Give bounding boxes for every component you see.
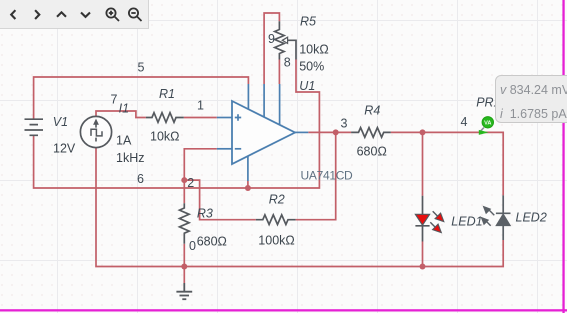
svg-text:U1: U1 <box>299 79 315 93</box>
op-amp - input stub <box>217 148 232 150</box>
svg-text:1: 1 <box>197 99 204 113</box>
toolbar pan up icon <box>57 12 66 16</box>
LED1 triangle <box>415 214 429 225</box>
wire net6 (battery - bottom rail to pot wiper) <box>34 60 320 189</box>
op-amp top pin stub (null 5) <box>279 84 281 125</box>
op-amp minus sign <box>235 148 241 150</box>
I1 arrow up <box>95 124 97 142</box>
pot R5 wiper lead <box>287 40 296 59</box>
LED2 emission arrow a <box>488 209 494 215</box>
wire op-amp V- pin to bottom rail <box>247 181 249 188</box>
junction op-amp V- on net6 <box>245 185 251 191</box>
resistor R1 zigzag <box>146 113 184 123</box>
probe PR1 arrow on wire <box>479 130 489 135</box>
wire net9 (pot top to op-amp pin) <box>264 13 279 84</box>
toolbar pan left icon <box>11 10 15 19</box>
wire R2 right to output node 3 <box>296 132 336 219</box>
probe PR1 needle <box>480 128 485 133</box>
battery V1 plates <box>25 119 44 135</box>
svg-text:1A: 1A <box>116 133 132 147</box>
ground junction on net0 <box>181 264 187 270</box>
toolbar zoom in icon <box>106 8 119 21</box>
svg-text:0: 0 <box>189 239 196 253</box>
ground symbol <box>176 283 192 299</box>
svg-text:6: 6 <box>137 172 144 186</box>
op-amp U1 triangle <box>232 101 295 164</box>
svg-text:R4: R4 <box>364 104 380 118</box>
LED2 triangle <box>496 214 510 226</box>
svg-text:12V: 12V <box>53 141 76 155</box>
toolbar <box>0 0 149 29</box>
svg-text:2: 2 <box>187 176 194 190</box>
page boundary magenta right <box>562 0 564 313</box>
resistor R4 zigzag <box>351 128 391 138</box>
svg-text:680Ω: 680Ω <box>357 145 387 159</box>
wire net5 (battery + to op-amp V+) <box>34 77 249 119</box>
svg-text:680Ω: 680Ω <box>197 234 227 248</box>
svg-text:5: 5 <box>138 61 145 75</box>
svg-text:3: 3 <box>341 117 348 131</box>
wire net1 (R1 to op-amp +) <box>184 117 217 119</box>
svg-text:8: 8 <box>284 56 291 70</box>
svg-text:10kΩ: 10kΩ <box>299 43 329 57</box>
op-amp bottom pin stub (V-) <box>247 156 249 181</box>
LED2 emission arrow b <box>485 220 491 226</box>
probe readout tooltip <box>495 75 567 123</box>
page boundary magenta bottom <box>0 309 567 311</box>
svg-text:V1: V1 <box>53 115 68 129</box>
node 4 junction <box>420 129 426 135</box>
svg-text:R2: R2 <box>269 193 285 207</box>
wire net3 (op-amp out to R4) <box>308 131 351 133</box>
op-amp top pin stub (null 1) <box>263 84 265 117</box>
svg-text:1kHz: 1kHz <box>116 151 144 165</box>
wire net0 bottom rail (I1 bottom to LED2 bottom) <box>96 148 503 267</box>
toolbar pan down icon <box>81 13 90 17</box>
op-amp plus sign <box>235 114 241 120</box>
LED1 emission arrow b <box>430 222 436 228</box>
resistor R2 zigzag <box>256 215 296 225</box>
LED1 bottom junction <box>420 264 426 270</box>
svg-text:4: 4 <box>461 115 468 129</box>
svg-text:R1: R1 <box>159 87 175 101</box>
pot R5 wiper arrowhead <box>282 37 287 43</box>
LED1 leads <box>415 196 429 242</box>
svg-text:R5: R5 <box>300 15 316 29</box>
svg-text:UA741CD: UA741CD <box>301 169 354 183</box>
node 2 junction <box>181 177 187 183</box>
svg-text:R3: R3 <box>197 207 213 221</box>
wire R3 bottom to ground <box>183 244 185 283</box>
svg-text:50%: 50% <box>299 60 324 74</box>
svg-text:10kΩ: 10kΩ <box>150 130 180 144</box>
svg-text:100kΩ: 100kΩ <box>258 233 294 247</box>
probe PR1 circle <box>482 117 493 128</box>
LED1 emission arrow a <box>433 211 439 217</box>
wire LED1 branch bottom <box>422 242 424 267</box>
svg-text:VA: VA <box>484 120 491 126</box>
svg-text:7: 7 <box>111 93 118 107</box>
current source I1 circle <box>80 116 111 147</box>
LED2 leads <box>496 195 511 240</box>
svg-text:I1: I1 <box>119 102 129 116</box>
wire net8 (pot bottom to op-amp pin) <box>278 60 280 85</box>
wire net2 jog to R2 left <box>184 180 256 220</box>
wire LED1 branch top <box>422 132 424 195</box>
op-amp output stub <box>295 131 308 133</box>
wire net4 (R4 to LED2 branch) <box>391 132 503 195</box>
node 3 junction (feedback) <box>333 129 339 135</box>
op-amp top pin stub (V+) <box>247 84 249 109</box>
svg-text:LED1: LED1 <box>451 215 482 229</box>
svg-text:9: 9 <box>268 32 275 46</box>
toolbar pan right icon <box>35 10 39 19</box>
wire net2 (op-amp - to R3 top) <box>184 149 217 203</box>
I1 square wave glyph <box>91 129 102 136</box>
resistor R3 zigzag vertical <box>180 203 190 244</box>
op-amp + input stub <box>217 117 232 119</box>
svg-text:LED2: LED2 <box>516 211 547 225</box>
toolbar zoom out icon <box>129 8 142 21</box>
potentiometer R5 zigzag vertical <box>275 21 284 59</box>
wire net7 (I1 top to R1) <box>96 111 146 118</box>
